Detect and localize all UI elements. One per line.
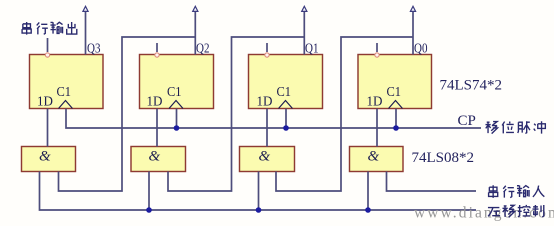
svg-text:1D: 1D — [367, 95, 383, 110]
wire AND4 out to FF4 1D — [376, 109, 378, 147]
wire serial-out stub into FF1 top pin — [47, 38, 49, 52]
svg-text:Q1: Q1 — [305, 42, 319, 57]
D flip-flop U1B (Q2 stage) — [140, 55, 214, 110]
wire AND2 in1 to control bus — [148, 172, 150, 211]
label 串行输出 (serial output) — [22, 22, 31, 35]
pin circle FF1 — [45, 53, 49, 57]
AND gate A3 — [240, 147, 295, 172]
svg-text:74LS74*2: 74LS74*2 — [440, 78, 503, 94]
D flip-flop U2B (Q0 stage) — [358, 55, 432, 110]
wire FF4 clock C1 to CP — [395, 109, 397, 129]
arrow terminal Q2 — [193, 6, 198, 11]
clock edge triangle — [59, 101, 73, 109]
junction CP / FF4 C1 — [393, 125, 399, 131]
junction control / AND2 in1 — [146, 207, 152, 213]
wire Q2 output up to arrow — [194, 12, 196, 55]
wire Q3 output up to arrow — [85, 12, 87, 55]
svg-text:Q0: Q0 — [414, 42, 428, 57]
label 左移控制 (left-shift control) — [488, 208, 500, 217]
wire AND3 out to FF3 1D — [266, 109, 268, 147]
wire serial input to AND4 in2 — [387, 172, 477, 192]
svg-text:Q2: Q2 — [196, 42, 210, 57]
label 串行输入 (serial input) — [489, 185, 498, 198]
wire Q0 feedback to AND3 in2 — [276, 37, 413, 191]
svg-text:&: & — [149, 149, 161, 165]
svg-text:1D: 1D — [257, 95, 273, 110]
svg-text:1D: 1D — [147, 95, 163, 110]
wire FF3 clock C1 to CP — [285, 109, 287, 129]
wire AND2 out to FF2 1D — [156, 109, 158, 147]
svg-text:1D: 1D — [37, 95, 53, 110]
AND gate A4 — [350, 147, 404, 172]
svg-text:C1: C1 — [387, 85, 402, 100]
AND gate A2 — [131, 147, 186, 172]
wire FF2 top pin stub — [156, 43, 158, 52]
wire AND1 out to FF1 1D — [47, 109, 49, 147]
svg-text:Q3: Q3 — [87, 42, 101, 57]
label 移位脉冲 (shift pulse) — [485, 122, 497, 134]
arrow terminal Q3 — [83, 6, 88, 11]
svg-text:C1: C1 — [277, 85, 292, 100]
junction control / AND3 in1 — [256, 207, 262, 213]
svg-text:&: & — [39, 149, 51, 165]
wire AND4 in1 to control bus — [367, 172, 369, 211]
wire FF4 top pin stub — [376, 43, 378, 52]
junction CP / FF3 C1 — [283, 125, 289, 131]
wire FF3 top pin stub — [266, 43, 268, 52]
wire Q0 output up to arrow — [412, 12, 414, 55]
svg-text:www.diangon.com: www.diangon.com — [414, 205, 554, 222]
AND gate A1 — [22, 147, 76, 172]
wire Q1 output up to arrow — [303, 12, 305, 55]
svg-text:C1: C1 — [57, 85, 72, 100]
svg-text:&: & — [259, 149, 271, 165]
arrow terminal Q1 — [302, 6, 307, 11]
junction control / AND4 in1 — [365, 207, 371, 213]
junction CP / FF2 C1 — [174, 125, 180, 131]
wire AND3 in1 to control bus — [258, 172, 260, 211]
wire FF2 clock C1 to CP — [176, 109, 178, 129]
wire Q1 feedback to AND2 in2 — [168, 37, 304, 191]
D flip-flop U1A (Q3 stage) — [30, 55, 104, 110]
svg-text:&: & — [368, 149, 380, 165]
pin circle FF2 — [155, 53, 159, 57]
D flip-flop U2A (Q1 stage) — [249, 55, 323, 110]
clock edge triangle — [389, 101, 403, 109]
wire Q2 feedback to AND1 in2: over the top, down, across, up — [59, 37, 196, 191]
svg-text:CP: CP — [458, 113, 476, 129]
wire left-shift control bus — [40, 172, 477, 211]
svg-text:74LS08*2: 74LS08*2 — [412, 150, 475, 166]
clock edge triangle — [279, 101, 293, 109]
wire CP bus — [66, 109, 481, 129]
clock edge triangle — [169, 101, 183, 109]
arrow terminal Q0 — [410, 6, 415, 11]
svg-text:C1: C1 — [167, 85, 182, 100]
pin circle FF4 — [375, 53, 379, 57]
pin circle FF3 — [265, 53, 269, 57]
